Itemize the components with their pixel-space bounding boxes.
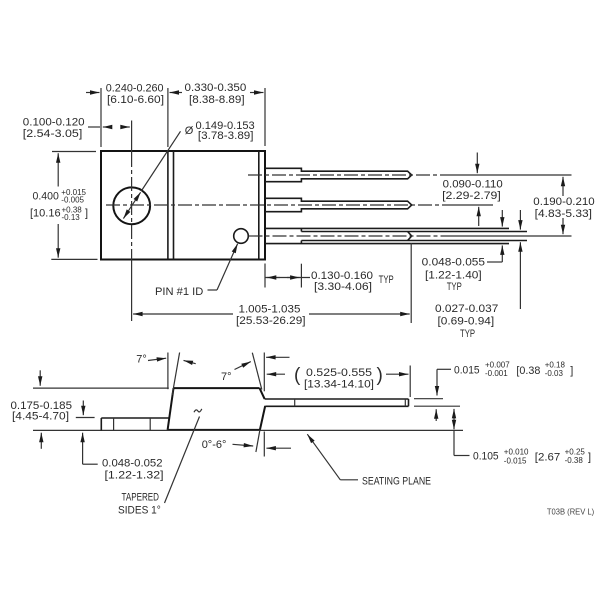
svg-text:TAPERED: TAPERED bbox=[122, 492, 160, 504]
svg-text:7°: 7° bbox=[136, 354, 147, 366]
lead 3 tip bbox=[408, 232, 412, 241]
dim 0.048-0.055 bbox=[501, 210, 503, 227]
lead 3 outer bottom line bbox=[265, 243, 509, 245]
svg-text:): ) bbox=[377, 365, 383, 386]
svg-text:0.400: 0.400 bbox=[33, 191, 59, 203]
svg-text:0.525-0.555: 0.525-0.555 bbox=[306, 367, 372, 379]
svg-text:1.005-1.035: 1.005-1.035 bbox=[239, 304, 301, 316]
svg-text:-0.001: -0.001 bbox=[485, 369, 508, 378]
dim 0.175-0.185 bbox=[39, 370, 41, 386]
construction slant left bbox=[172, 353, 179, 396]
svg-text:TYP: TYP bbox=[460, 328, 475, 340]
svg-text:0.330-0.350: 0.330-0.350 bbox=[185, 82, 247, 94]
lead 3 center line bbox=[249, 235, 451, 237]
svg-text:]: ] bbox=[588, 452, 591, 464]
lead 2 outline bbox=[265, 198, 412, 211]
construction vertical right upper bbox=[263, 353, 265, 392]
dim 0.240-0.260 arrows bbox=[86, 92, 100, 94]
svg-text:]: ] bbox=[85, 208, 88, 220]
svg-text:0.048-0.052: 0.048-0.052 bbox=[102, 458, 163, 470]
body right inner vertical line bbox=[258, 151, 260, 260]
svg-text:T03B (REV L): T03B (REV L) bbox=[547, 508, 595, 517]
svg-text:0.100-0.120: 0.100-0.120 bbox=[23, 117, 85, 129]
seating plane line bbox=[33, 429, 463, 431]
lead 3 step verticals bbox=[300, 228, 302, 231]
squiggle bbox=[194, 409, 202, 412]
svg-text:(: ( bbox=[294, 365, 301, 386]
svg-text:-0.015: -0.015 bbox=[504, 457, 527, 466]
svg-text:7°: 7° bbox=[221, 371, 232, 383]
hole diameter line with arrows bbox=[132, 192, 141, 206]
svg-text:[1.22-1.32]: [1.22-1.32] bbox=[105, 470, 164, 482]
dim 0.100-0.120 bbox=[88, 126, 100, 128]
pin #1 id circle bbox=[234, 229, 249, 244]
svg-text:SIDES 1°: SIDES 1° bbox=[118, 504, 161, 516]
hole vertical center line bbox=[131, 121, 133, 154]
construction slant right lower bbox=[256, 430, 260, 452]
body left slant edge bbox=[168, 388, 174, 430]
body bottom edge bbox=[168, 429, 260, 431]
dim 0.027-0.037 bbox=[519, 210, 521, 230]
svg-text:-0.13: -0.13 bbox=[62, 213, 81, 222]
svg-text:[0.69-0.94]: [0.69-0.94] bbox=[438, 315, 495, 327]
body lower-right slant bbox=[260, 406, 265, 430]
svg-text:0°-6°: 0°-6° bbox=[202, 439, 227, 451]
lead side profile bbox=[265, 398, 409, 400]
svg-text:-0.38: -0.38 bbox=[565, 456, 584, 465]
body internal vertical line a bbox=[167, 151, 169, 260]
svg-text:]: ] bbox=[570, 365, 573, 377]
svg-text:[8.38-8.89]: [8.38-8.89] bbox=[189, 94, 245, 106]
body top edge bbox=[174, 387, 260, 389]
svg-text:[25.53-26.29]: [25.53-26.29] bbox=[236, 315, 306, 327]
svg-text:[1.22-1.40]: [1.22-1.40] bbox=[425, 269, 482, 281]
svg-text:PIN #1 ID: PIN #1 ID bbox=[155, 286, 203, 298]
svg-text:-0.005: -0.005 bbox=[61, 196, 84, 205]
svg-text:0.105: 0.105 bbox=[473, 451, 499, 463]
svg-text:0.090-0.110: 0.090-0.110 bbox=[443, 179, 503, 191]
dim 0.130-0.160 bbox=[264, 264, 266, 288]
tab hole silhouette lines bbox=[113, 418, 115, 430]
dim 0.330-0.350 arrow right bbox=[250, 92, 264, 94]
svg-text:SEATING PLANE: SEATING PLANE bbox=[362, 476, 431, 488]
seating plane label bbox=[307, 434, 340, 480]
svg-text:[3.30-4.06]: [3.30-4.06] bbox=[314, 281, 372, 293]
dim 0.048-0.052 (tab) bbox=[82, 401, 84, 416]
svg-text:0.027-0.037: 0.027-0.037 bbox=[435, 303, 498, 315]
lead 3 inner bottom line bbox=[301, 240, 527, 242]
svg-text:[4.83-5.33]: [4.83-5.33] bbox=[535, 208, 592, 220]
svg-text:0.240-0.260: 0.240-0.260 bbox=[106, 83, 164, 95]
svg-text:[4.45-4.70]: [4.45-4.70] bbox=[12, 411, 69, 423]
svg-text:[3.78-3.89]: [3.78-3.89] bbox=[198, 130, 254, 142]
lead 1 center line bbox=[248, 174, 447, 176]
svg-text:[13.34-14.10]: [13.34-14.10] bbox=[304, 379, 374, 391]
svg-text:TYP: TYP bbox=[379, 274, 394, 286]
svg-text:[10.16: [10.16 bbox=[30, 208, 61, 220]
svg-text:[0.38: [0.38 bbox=[516, 365, 540, 377]
extension lines above body bbox=[100, 88, 102, 147]
mounting hole bbox=[113, 187, 150, 224]
body outline bbox=[101, 151, 265, 260]
body internal vertical line b bbox=[173, 151, 175, 260]
svg-text:+0.010: +0.010 bbox=[504, 448, 529, 457]
svg-text:Ø: Ø bbox=[185, 125, 194, 137]
lead 1 outline bbox=[265, 168, 412, 181]
horizontal center line through hole and lead 2 bbox=[106, 204, 450, 206]
dim 1.005-1.035 bbox=[133, 313, 233, 315]
svg-text:[2.29-2.79]: [2.29-2.79] bbox=[442, 190, 501, 202]
tab left profile bbox=[101, 417, 169, 419]
dim 0.015 bbox=[437, 368, 451, 370]
construction vertical left bbox=[167, 353, 169, 390]
leader to diameter label bbox=[141, 131, 180, 191]
lead 3 outer top line bbox=[265, 227, 509, 229]
svg-text:0.190-0.210: 0.190-0.210 bbox=[533, 196, 594, 208]
construction vertical right lower bbox=[263, 432, 265, 457]
svg-text:[6.10-6.60]: [6.10-6.60] bbox=[107, 94, 164, 106]
svg-text:TYP: TYP bbox=[447, 281, 462, 293]
dim 0.400 left bbox=[52, 151, 96, 153]
dim 0.105 bbox=[453, 409, 455, 419]
svg-text:[2.67: [2.67 bbox=[535, 452, 561, 464]
svg-text:-0.03: -0.03 bbox=[545, 369, 564, 378]
svg-text:0.015: 0.015 bbox=[454, 365, 480, 377]
construction slant right upper bbox=[252, 353, 261, 390]
dim 0.190-0.210 bbox=[562, 177, 564, 196]
svg-text:0.048-0.055: 0.048-0.055 bbox=[422, 256, 485, 268]
svg-text:[2.54-3.05]: [2.54-3.05] bbox=[23, 128, 82, 140]
dim 0.525-0.555 bbox=[267, 373, 285, 375]
body upper-right slant bbox=[260, 388, 265, 399]
dim 0.090-0.110 bbox=[476, 153, 478, 174]
top reference line (left) bbox=[33, 387, 169, 389]
lead 3 inner top line bbox=[301, 231, 527, 233]
